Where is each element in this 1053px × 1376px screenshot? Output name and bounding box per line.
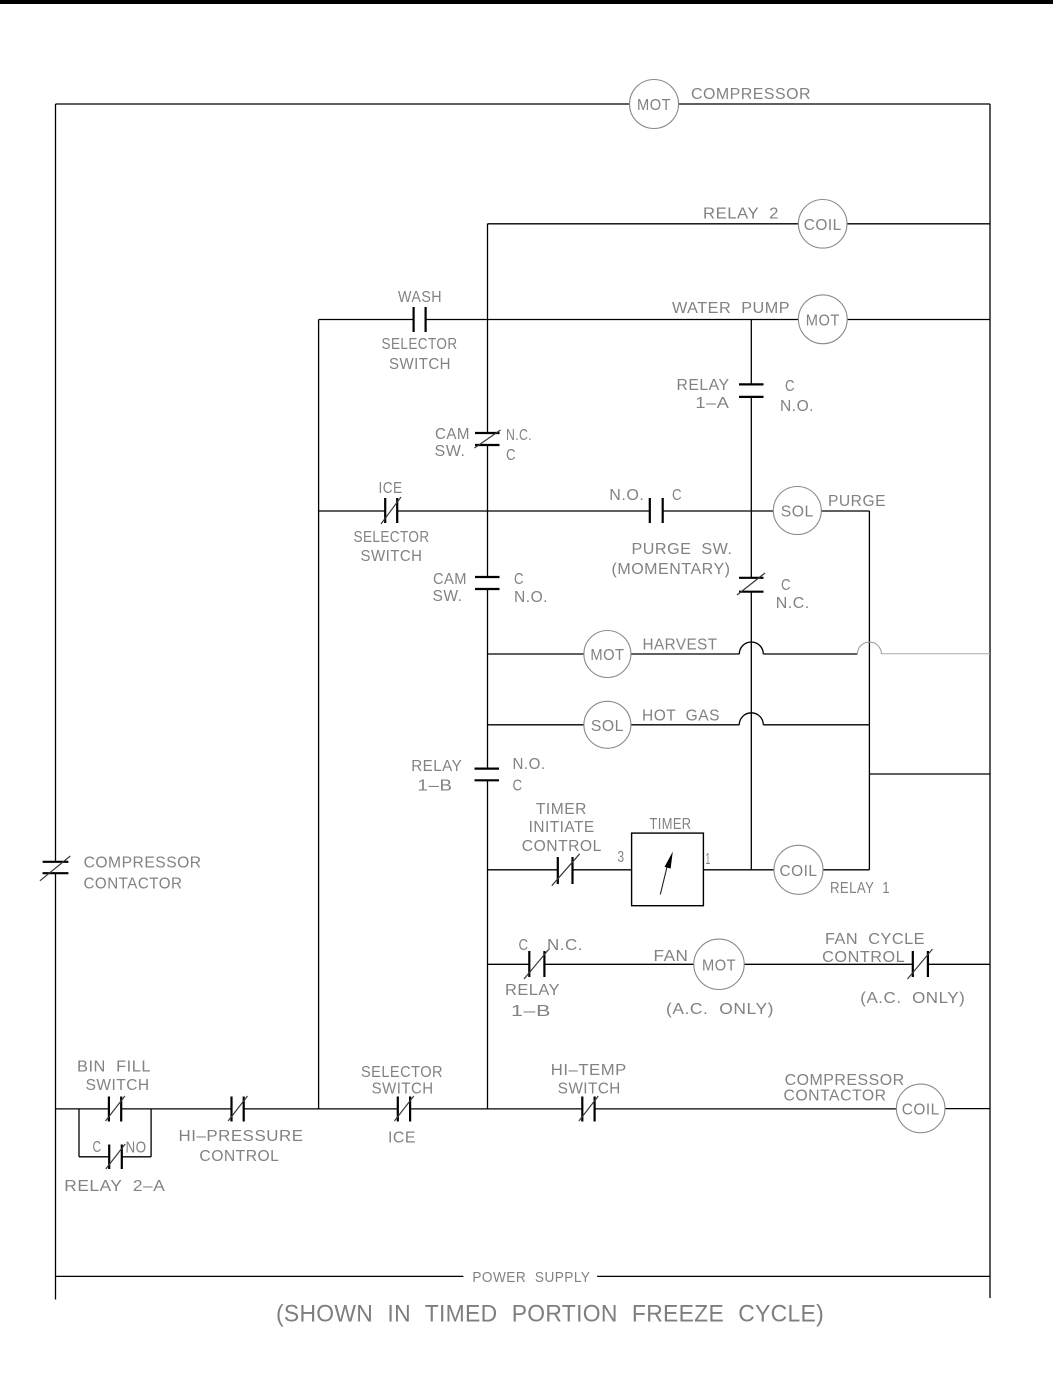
contact C/N.C. (on bus C): [737, 573, 765, 595]
svg-text:CONTACTOR: CONTACTOR: [784, 1088, 887, 1105]
wire water pump rung: [319, 319, 414, 321]
svg-text:SWITCH: SWITCH: [86, 1077, 150, 1094]
svg-text:N.O.: N.O.: [514, 589, 548, 606]
svg-text:C: C: [519, 937, 529, 954]
svg-text:C: C: [513, 778, 523, 795]
svg-text:INITIATE: INITIATE: [529, 819, 595, 836]
wire hop over bus C (harvest): [739, 642, 763, 654]
contact RELAY 1-B (N.O. on bus B): [475, 769, 500, 781]
svg-text:MOT: MOT: [637, 97, 671, 114]
wire relay 2-A parallel branch: [79, 1109, 151, 1157]
svg-text:CONTACTOR: CONTACTOR: [84, 875, 183, 892]
svg-text:PURGE SW.: PURGE SW.: [632, 541, 733, 558]
motor MOT water pump: [798, 295, 847, 344]
coil COMPRESSOR CONTACTOR (bottom): [896, 1084, 945, 1133]
wire timer/coil rung: [488, 869, 558, 871]
svg-text:SELECTOR: SELECTOR: [382, 336, 458, 353]
wire hop over bus C (hot gas): [739, 713, 763, 725]
svg-text:CAM: CAM: [435, 426, 470, 443]
svg-text:N.C.: N.C.: [547, 937, 583, 954]
svg-text:SWITCH: SWITCH: [389, 356, 451, 373]
svg-text:SW.: SW.: [435, 443, 466, 460]
motor MOT harvest: [584, 631, 631, 678]
wire power supply line: [56, 1275, 464, 1277]
solenoid SOL purge: [773, 487, 821, 535]
contact HI-PRESSURE CONTROL (N.C.): [228, 1096, 247, 1122]
svg-text:MOT: MOT: [590, 647, 624, 664]
svg-text:(SHOWN IN TIMED PORTION FREEZE: (SHOWN IN TIMED PORTION FREEZE CYCLE): [276, 1301, 824, 1328]
svg-text:RELAY: RELAY: [411, 758, 462, 775]
svg-text:CONTROL: CONTROL: [199, 1148, 279, 1165]
svg-text:C: C: [506, 447, 516, 464]
svg-text:3: 3: [618, 849, 625, 866]
svg-text:N.O.: N.O.: [513, 756, 546, 773]
svg-text:FAN CYCLE: FAN CYCLE: [825, 931, 925, 948]
svg-text:HI–TEMP: HI–TEMP: [551, 1062, 627, 1079]
svg-text:N.O.: N.O.: [780, 398, 814, 415]
svg-text:SWITCH: SWITCH: [558, 1080, 621, 1097]
contact ICE selector switch (N.C.): [381, 497, 401, 524]
wire bottom rung: [56, 1108, 109, 1110]
svg-text:HARVEST: HARVEST: [643, 637, 718, 654]
svg-text:ICE: ICE: [388, 1130, 416, 1147]
svg-text:C: C: [781, 577, 791, 594]
svg-text:PURGE: PURGE: [828, 493, 886, 510]
contact CAM SW. N.C. (on bus B): [475, 430, 501, 448]
svg-text:C: C: [93, 1139, 102, 1156]
motor MOT compressor: [630, 80, 679, 129]
contact RELAY 1-B fan (N.C.): [524, 949, 549, 979]
wire right bus: [989, 104, 991, 1298]
svg-text:SOL: SOL: [781, 504, 814, 521]
wire bus C (x=751.3): [750, 320, 752, 870]
contact RELAY 2-A (N.C.): [106, 1144, 125, 1169]
svg-text:(MOMENTARY): (MOMENTARY): [612, 561, 731, 578]
svg-text:COMPRESSOR: COMPRESSOR: [84, 855, 202, 872]
coil RELAY 2: [798, 200, 847, 249]
contact HI-TEMP SWITCH (N.C.): [579, 1096, 598, 1122]
svg-text:COMPRESSOR: COMPRESSOR: [785, 1072, 905, 1089]
coil RELAY 1: [774, 845, 823, 894]
svg-text:HI–PRESSURE: HI–PRESSURE: [179, 1128, 304, 1145]
svg-text:RELAY 1: RELAY 1: [830, 880, 890, 897]
wire hot gas rung: [488, 724, 584, 726]
svg-text:1–A: 1–A: [695, 395, 729, 412]
svg-text:TIMER: TIMER: [650, 816, 692, 833]
contact WASH selector switch: [414, 307, 426, 332]
svg-text:RELAY 2–A: RELAY 2–A: [64, 1178, 165, 1195]
svg-text:MOT: MOT: [702, 957, 736, 974]
timer arrow hand: [660, 852, 673, 895]
wire link bus D to right bus: [869, 773, 990, 775]
svg-text:RELAY 2: RELAY 2: [703, 206, 779, 223]
contact RELAY 1-A (N.O. on bus C): [739, 384, 764, 397]
wire top rung (compressor line): [56, 103, 630, 105]
svg-text:ICE: ICE: [379, 480, 403, 497]
svg-text:FAN: FAN: [654, 948, 689, 965]
top border bar: [0, 0, 1053, 4]
motor MOT fan: [694, 939, 744, 989]
wire left bus (upper): [55, 104, 57, 862]
svg-text:1–B: 1–B: [511, 1003, 551, 1020]
svg-text:WATER PUMP: WATER PUMP: [672, 300, 790, 317]
contact TIMER INITIATE CONTROL (N.C.): [552, 854, 580, 886]
svg-text:WASH: WASH: [398, 289, 442, 306]
svg-text:BIN FILL: BIN FILL: [77, 1058, 151, 1075]
svg-text:CONTROL: CONTROL: [822, 949, 905, 966]
svg-text:CAM: CAM: [433, 571, 467, 588]
svg-text:SELECTOR: SELECTOR: [354, 529, 430, 546]
svg-text:1: 1: [706, 851, 711, 868]
svg-text:MOT: MOT: [806, 312, 840, 329]
svg-text:RELAY: RELAY: [677, 377, 730, 394]
wire ice/purge rung: [319, 510, 386, 512]
svg-text:SOL: SOL: [591, 718, 624, 735]
svg-text:COIL: COIL: [804, 217, 842, 234]
contact BIN FILL SWITCH (N.C.): [106, 1096, 125, 1122]
contact COMPRESSOR CONTACTOR (N.C. on left bus): [40, 856, 70, 881]
svg-text:(A.C. ONLY): (A.C. ONLY): [860, 990, 965, 1007]
wire harvest to right bus (light): [881, 653, 990, 655]
svg-text:N.O.: N.O.: [609, 487, 644, 504]
svg-text:COIL: COIL: [780, 863, 818, 880]
contact CAM SW. N.O. (on bus B): [475, 577, 500, 589]
wire bus B (x=487): [487, 224, 489, 1109]
solenoid SOL hot gas: [584, 701, 631, 748]
wire hop over bus D (harvest, light): [857, 642, 881, 654]
wire relay 2 rung: [488, 223, 799, 225]
svg-text:C: C: [672, 487, 682, 504]
svg-text:COIL: COIL: [902, 1101, 940, 1118]
svg-text:CONTROL: CONTROL: [522, 838, 602, 855]
contact SELECTOR SWITCH ICE (N.C.): [394, 1096, 413, 1122]
svg-text:RELAY: RELAY: [505, 982, 560, 999]
svg-text:N.C.: N.C.: [506, 427, 532, 444]
wire bus A (x=318.6 wash/ice): [318, 320, 320, 1109]
svg-text:POWER SUPPLY: POWER SUPPLY: [472, 1269, 590, 1286]
svg-text:N.C.: N.C.: [776, 595, 810, 612]
svg-text:TIMER: TIMER: [536, 801, 587, 818]
svg-text:NO: NO: [126, 1140, 147, 1157]
svg-text:(A.C. ONLY): (A.C. ONLY): [666, 1001, 774, 1018]
svg-text:SELECTOR: SELECTOR: [361, 1064, 443, 1081]
wire bus D (x=869.4): [868, 511, 870, 870]
timer box: [632, 833, 704, 906]
wire fan rung: [488, 963, 530, 965]
wire harvest rung: [488, 653, 584, 655]
contact FAN CYCLE CONTROL (N.C.): [908, 949, 933, 979]
svg-text:HOT GAS: HOT GAS: [642, 707, 720, 724]
contact PURGE SW. momentary (N.O.): [650, 498, 663, 523]
wire left bus (lower): [55, 873, 57, 1299]
svg-text:C: C: [785, 378, 795, 395]
svg-text:SW.: SW.: [433, 588, 463, 605]
svg-text:SWITCH: SWITCH: [372, 1080, 434, 1097]
svg-text:C: C: [514, 571, 524, 588]
svg-text:COMPRESSOR: COMPRESSOR: [691, 86, 811, 103]
svg-text:1–B: 1–B: [418, 778, 453, 795]
svg-text:SWITCH: SWITCH: [361, 548, 423, 565]
